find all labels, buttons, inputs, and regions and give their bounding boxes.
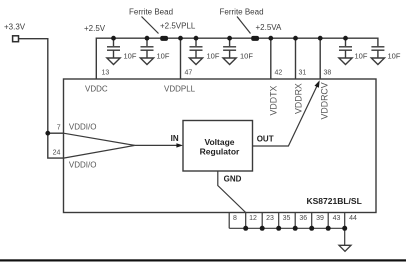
page rule <box>0 259 406 261</box>
svg-text:10F: 10F <box>388 51 401 60</box>
junction dots on +2.5V rail <box>111 36 348 41</box>
wire pin 39|43 divider <box>327 213 329 229</box>
capacitor C3 10F <box>189 38 202 64</box>
svg-text:42: 42 <box>275 69 283 76</box>
svg-text:IN: IN <box>171 134 179 143</box>
svg-text:VDDPLL: VDDPLL <box>164 84 196 93</box>
svg-text:39: 39 <box>316 215 324 222</box>
svg-text:Voltage: Voltage <box>204 137 234 147</box>
svg-text:10F: 10F <box>355 51 368 60</box>
capacitor C6 10F <box>371 47 384 65</box>
bottom pin cells <box>229 213 345 246</box>
wire pin47 <box>180 38 182 79</box>
wire to ground <box>344 228 346 245</box>
wire pin 8|12 divider <box>245 213 247 229</box>
wire pin 35|36 divider <box>294 213 296 229</box>
svg-text:47: 47 <box>185 69 193 76</box>
svg-text:OUT: OUT <box>257 134 274 143</box>
svg-text:12: 12 <box>249 215 257 222</box>
ferrite bead FB2 <box>251 36 259 41</box>
svg-text:VDDC: VDDC <box>85 85 108 94</box>
svg-text:31: 31 <box>299 69 307 76</box>
svg-text:VDDI/O: VDDI/O <box>69 123 97 132</box>
svg-text:43: 43 <box>333 215 341 222</box>
capacitor C2 10F <box>140 38 153 64</box>
svg-text:VDDRX: VDDRX <box>293 83 303 114</box>
junction dots on ground rail <box>243 226 347 231</box>
svg-text:35: 35 <box>283 215 291 222</box>
svg-text:Ferrite Bead: Ferrite Bead <box>220 8 264 17</box>
wire pin 43|44 divider <box>344 213 346 229</box>
arrow to pin38 junction <box>315 80 320 88</box>
svg-text:36: 36 <box>299 215 307 222</box>
capacitor C1 10F <box>107 38 120 64</box>
svg-text:Regulator: Regulator <box>200 147 240 157</box>
svg-text:10F: 10F <box>124 51 137 60</box>
wire funnel to regulator IN <box>64 133 178 158</box>
wire ground rail <box>229 227 345 229</box>
svg-text:VDDRCV: VDDRCV <box>319 82 329 119</box>
ferrite bead FB1 leader <box>142 17 159 34</box>
wire GND to pin row <box>218 171 246 213</box>
capacitor C4 10F <box>223 38 236 64</box>
svg-text:13: 13 <box>102 69 110 76</box>
svg-text:38: 38 <box>324 69 332 76</box>
svg-text:10F: 10F <box>207 51 220 60</box>
wire pin 36|39 divider <box>311 213 313 229</box>
ferrite bead FB2 leader <box>237 17 251 34</box>
voltage regulator U2 <box>183 121 253 172</box>
wire +2.5V rail <box>96 38 378 79</box>
wire pin42 <box>270 38 272 79</box>
svg-text:Ferrite Bead: Ferrite Bead <box>129 8 173 17</box>
terminal +3.3V <box>13 36 19 42</box>
wire OUT to VDDRCV <box>253 86 317 146</box>
junction dot pin7 tap <box>45 131 50 136</box>
svg-text:8: 8 <box>233 215 237 222</box>
capacitor C5 10F <box>339 38 352 64</box>
wire pin7 branch <box>48 132 64 134</box>
svg-text:VDDTX: VDDTX <box>269 86 279 116</box>
wire pin38 <box>319 38 321 79</box>
svg-text:VDDI/O: VDDI/O <box>69 160 97 169</box>
wire +3.3V feed <box>19 39 64 158</box>
svg-text:GND: GND <box>224 174 242 183</box>
svg-text:+3.3V: +3.3V <box>4 23 26 32</box>
ferrite bead FB1 <box>160 36 168 41</box>
svg-text:+2.5V: +2.5V <box>84 24 106 33</box>
svg-text:23: 23 <box>266 215 274 222</box>
svg-text:44: 44 <box>349 215 357 222</box>
svg-text:24: 24 <box>53 150 61 157</box>
wire pin 12|23 divider <box>261 213 263 229</box>
svg-text:+2.5VA: +2.5VA <box>256 23 283 32</box>
svg-text:KS8721BL/SL: KS8721BL/SL <box>307 196 362 206</box>
arrow into IN <box>176 143 183 147</box>
svg-text:7: 7 <box>57 124 61 131</box>
svg-text:+2.5VPLL: +2.5VPLL <box>160 22 196 31</box>
svg-text:10F: 10F <box>157 51 170 60</box>
wire pin 23|35 divider <box>278 213 280 229</box>
svg-text:10F: 10F <box>240 51 253 60</box>
ground <box>339 245 351 251</box>
wire cell left wall <box>228 213 230 229</box>
wire pin31 <box>295 38 297 79</box>
chip U1 KS8721BL/SL body <box>64 79 377 213</box>
